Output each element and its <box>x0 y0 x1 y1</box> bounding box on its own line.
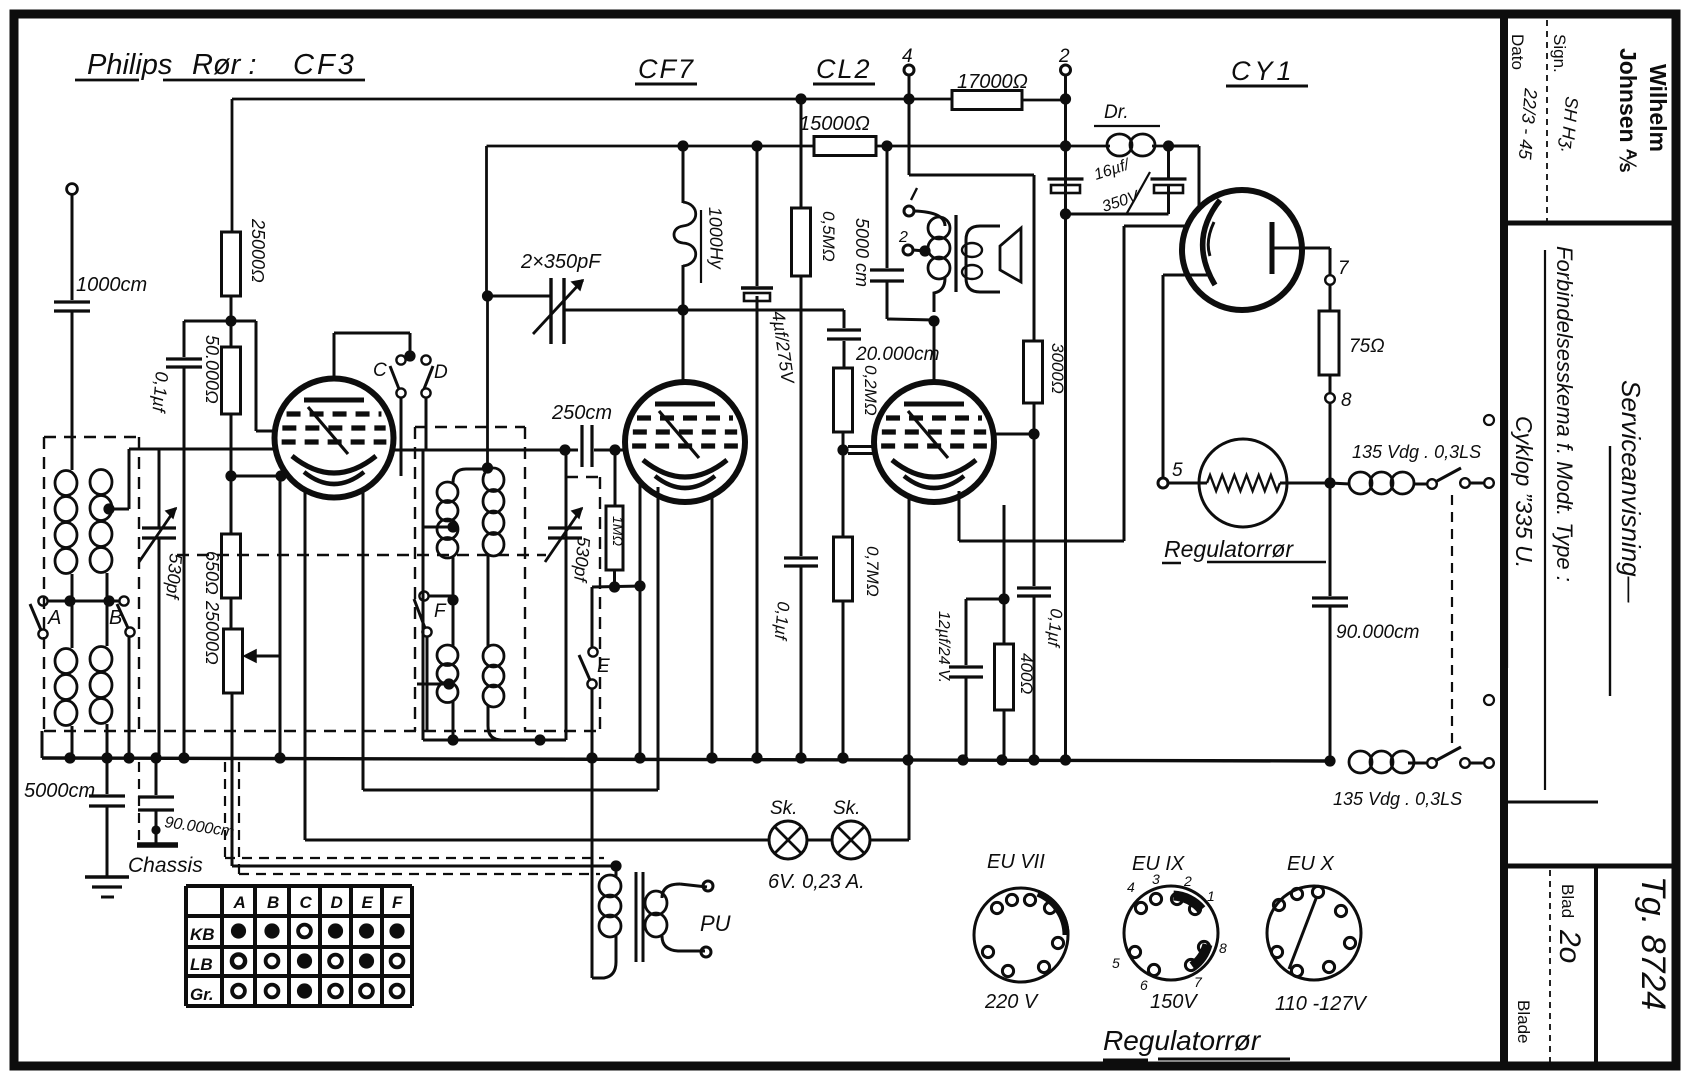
wire switch D down <box>425 398 428 450</box>
node speaker tap <box>919 245 930 256</box>
resistor 0,2 Mohm <box>834 368 853 432</box>
regulator tube <box>1199 439 1287 527</box>
node CL2 grid <box>837 444 848 455</box>
svg-text:530pf: 530pf <box>162 553 186 602</box>
svg-text:Serviceanvisning—: Serviceanvisning— <box>1616 380 1646 604</box>
wire CF7 return L <box>363 789 658 792</box>
svg-text:Dr.: Dr. <box>1104 102 1129 123</box>
svg-text:B: B <box>267 893 279 912</box>
node frame bottom left <box>447 734 458 745</box>
capacitor 5000cm anode <box>881 140 892 151</box>
node PU top <box>610 860 621 871</box>
binder hole bottom <box>1484 695 1494 705</box>
svg-text:F: F <box>434 601 447 622</box>
node bus junction <box>751 752 762 763</box>
wire terminal2 line down <box>1064 146 1067 758</box>
wire CF3 screen feed <box>231 320 256 323</box>
terminal 8 <box>1329 375 1332 393</box>
svg-text:Wilhelm: Wilhelm <box>1645 64 1671 152</box>
wire to 3000 ohm feed <box>909 174 1034 177</box>
svg-text:A: A <box>47 607 61 629</box>
svg-text:Sign.: Sign. <box>1550 34 1569 73</box>
node 1000Hy top <box>677 140 688 151</box>
node 4uF top <box>751 140 762 151</box>
capacitor 90.000cm right <box>1329 483 1332 596</box>
svg-text:2: 2 <box>1183 873 1192 889</box>
svg-text:4: 4 <box>902 46 913 67</box>
speaker coil <box>966 226 1000 292</box>
svg-text:A: A <box>233 893 246 912</box>
svg-text:KB: KB <box>190 925 215 944</box>
svg-text:Dato: Dato <box>1508 34 1527 70</box>
node L4 top <box>482 462 493 473</box>
node CL2 cathode bias <box>998 593 1009 604</box>
svg-text:Tg. 8724: Tg. 8724 <box>1634 876 1672 1010</box>
svg-text:0,1µf: 0,1µf <box>770 601 792 643</box>
node L3 tap1 <box>447 521 458 532</box>
node bus junction <box>634 752 645 763</box>
resistor 650 ohm <box>222 534 241 598</box>
node bus junction <box>150 752 161 763</box>
node bus junction <box>957 754 968 765</box>
wire 1000Hy node to CF7 anode <box>682 310 685 382</box>
shield partition dashed y=555 <box>177 554 546 556</box>
svg-text:12µf/24 V.: 12µf/24 V. <box>935 611 952 683</box>
svg-text:2o: 2o <box>1553 929 1586 963</box>
tube CF3 <box>275 379 394 498</box>
node Dr right <box>1163 140 1174 151</box>
wire lamp to heater riser <box>870 839 909 842</box>
chassis bar <box>137 842 178 848</box>
node bus junction <box>902 754 913 765</box>
node bus junction <box>178 752 189 763</box>
wire 16uF bottom rail <box>1066 213 1169 216</box>
oscillator frame right <box>565 451 568 740</box>
wire L2 tap <box>106 573 109 601</box>
socket EU IX <box>1124 886 1218 980</box>
shield dash to chassis <box>138 762 140 840</box>
tube CF7 <box>625 382 745 502</box>
node bus junction <box>1060 754 1071 765</box>
wire between lamps <box>807 839 832 842</box>
terminal 5 <box>1158 478 1168 488</box>
inductor mains choke bottom <box>1349 751 1372 773</box>
wire L3 tap1 stub <box>424 526 453 529</box>
node 25000-50000 junction <box>225 315 236 326</box>
wire Dr to CY1 <box>1169 145 1200 148</box>
svg-text:1MΩ: 1MΩ <box>610 516 626 546</box>
wire gang right plate to anode coil node <box>564 309 844 312</box>
wire junction to 0.1uF <box>184 320 231 323</box>
svg-text:0,7MΩ: 0,7MΩ <box>863 546 882 597</box>
svg-text:400Ω: 400Ω <box>1017 653 1036 694</box>
wire 50000 to cathode node <box>230 414 233 476</box>
svg-text:25000Ω: 25000Ω <box>202 600 222 665</box>
svg-text:1: 1 <box>1207 888 1215 904</box>
svg-text:2: 2 <box>898 229 908 246</box>
resistor 17000 ohm <box>952 91 1022 110</box>
speaker cone <box>1000 228 1021 282</box>
svg-text:5: 5 <box>1172 460 1183 481</box>
coil L4b lower <box>483 645 504 667</box>
coil L3a upper <box>437 482 458 503</box>
svg-text:0,1µf: 0,1µf <box>1043 608 1065 650</box>
wire varcap bottom to bus <box>158 538 161 758</box>
switch B <box>119 596 128 605</box>
node bus junction <box>795 752 806 763</box>
svg-text:EU VII: EU VII <box>987 851 1045 873</box>
wire L1 tap <box>71 574 74 601</box>
node tube cathode <box>275 470 286 481</box>
svg-text:5000 cm: 5000 cm <box>852 218 872 287</box>
node bus junction <box>996 754 1007 765</box>
svg-text:2×350pF: 2×350pF <box>520 251 602 273</box>
svg-text:Johnsen ⅍: Johnsen ⅍ <box>1615 48 1641 172</box>
coil L2b lower <box>90 647 112 672</box>
switch C <box>396 355 405 364</box>
svg-text:Regulatorrør: Regulatorrør <box>1164 536 1294 562</box>
capacitor 1000cm <box>54 300 90 303</box>
capacitor 0,1uF CF7 anode <box>784 556 818 559</box>
node bus junction <box>837 752 848 763</box>
tube CY1 <box>1182 190 1302 310</box>
wire F top to L3 <box>428 595 453 598</box>
transformer PU core <box>635 872 638 962</box>
wire shielded pickup lead <box>232 865 616 868</box>
node CL2 screen <box>1028 428 1039 439</box>
svg-text:20.000cm: 20.000cm <box>855 344 939 365</box>
connection table grid <box>184 886 188 1006</box>
wire osc return below bus <box>362 789 364 791</box>
svg-text:E: E <box>597 656 610 677</box>
switch link dashed <box>1451 495 1453 748</box>
node bus junction <box>586 752 597 763</box>
svg-text:Rør :: Rør : <box>192 49 256 81</box>
title block left border <box>1500 14 1508 1066</box>
node L2 grid tap <box>103 503 114 514</box>
resistor 15000 ohm <box>814 137 876 156</box>
CL2 grid coupling plates <box>848 445 874 448</box>
svg-text:2: 2 <box>1058 46 1070 67</box>
coil L4a upper <box>483 468 504 492</box>
capacitor 4uF/275V <box>756 146 759 286</box>
wire coil tops bend <box>453 469 487 483</box>
coil L1a upper <box>55 471 77 496</box>
title block top cell divider <box>1504 221 1676 226</box>
wire CY1 cathode to terminal 5 <box>1163 274 1211 277</box>
node bus junction <box>123 752 134 763</box>
wire grid tap to grid line <box>109 508 129 511</box>
svg-text:5000cm.: 5000cm. <box>24 780 101 802</box>
wire cathode node to tube <box>231 475 281 478</box>
node gang left <box>482 290 493 301</box>
wire 1000cm to coil L1 <box>71 311 74 470</box>
wire E to bus <box>591 688 594 758</box>
shield dashed right leg <box>566 476 600 478</box>
svg-text:Regulatorrør: Regulatorrør <box>1103 1025 1262 1056</box>
svg-text:6V. 0,23 A.: 6V. 0,23 A. <box>768 871 865 893</box>
resistor 25000 ohm plate feed <box>222 232 241 296</box>
node bus junction <box>274 752 285 763</box>
socket EU IX keyway arc <box>1174 896 1202 910</box>
node bus junction <box>101 752 112 763</box>
svg-text:Sk.: Sk. <box>833 798 860 819</box>
node 250cm left <box>559 444 570 455</box>
terminal 4 <box>904 65 914 75</box>
terminal 1 speaker <box>904 206 914 216</box>
wire gang left plate <box>488 295 552 298</box>
node wire-B junction <box>103 595 114 606</box>
coil L3b lower <box>437 645 458 666</box>
svg-text:6: 6 <box>1140 977 1148 993</box>
node wire-A junction <box>64 595 75 606</box>
wire to CL2 anode <box>933 321 936 382</box>
node CF7 grid leak <box>634 580 645 591</box>
socket EU X <box>1267 886 1361 980</box>
svg-text:Gr.: Gr. <box>190 985 214 1004</box>
capacitor 16uF right <box>1167 146 1170 178</box>
svg-text:135 Vdg . 0,3LS: 135 Vdg . 0,3LS <box>1333 789 1462 809</box>
resistor 50.000 ohm <box>222 347 241 414</box>
svg-text:D: D <box>331 893 343 912</box>
svg-text:135 Vdg . 0,3LS: 135 Vdg . 0,3LS <box>1352 442 1481 462</box>
wire L1 bottom to bus <box>71 726 74 758</box>
svg-text:Cyklop ”335 U.: Cyklop ”335 U. <box>1511 416 1537 568</box>
node gang-coil junction <box>677 304 688 315</box>
svg-text:4: 4 <box>1127 879 1135 895</box>
node bus junction <box>1028 754 1039 765</box>
svg-text:75Ω: 75Ω <box>1349 336 1385 357</box>
wire CF3 heater to pilot lamps <box>304 489 307 840</box>
output transformer core <box>954 215 957 292</box>
svg-text:7: 7 <box>1338 258 1350 279</box>
svg-text:C: C <box>300 893 313 912</box>
wire L4 column <box>487 555 490 646</box>
wire cathode down <box>279 476 282 758</box>
wire 1M bottom link <box>592 586 640 587</box>
resistor 0,7 Mohm <box>842 450 845 537</box>
wire varcap2 top <box>564 451 566 528</box>
wire band wire y=601 <box>47 600 120 603</box>
table dots <box>231 923 246 938</box>
svg-text:530pf: 530pf <box>570 536 594 585</box>
svg-text:E: E <box>362 893 374 912</box>
svg-text:LB: LB <box>190 955 213 974</box>
socket EU IX keyway arc 2 <box>1193 945 1208 967</box>
svg-text:Blade: Blade <box>1514 1000 1533 1043</box>
wire PU return <box>591 758 594 978</box>
resistor 75 ohm <box>1329 285 1332 311</box>
coil L1b lower <box>55 649 77 674</box>
wire CF3 anode to switch CD <box>333 333 336 379</box>
svg-text:Forbindelsesskema f. Modt. Typ: Forbindelsesskema f. Modt. Type : <box>1552 246 1577 582</box>
node F-L3 junction <box>447 594 458 605</box>
socket EU X keyway line <box>1289 896 1317 969</box>
wire oscillator feed x=486.5 down <box>485 146 488 296</box>
wire F bottom down <box>426 636 429 731</box>
wire antenna lead <box>71 194 74 300</box>
variable capacitor 530pF oscillator <box>548 526 582 529</box>
svg-text:250cm: 250cm <box>551 402 612 424</box>
terminal 2 <box>1061 65 1071 75</box>
svg-text:0,1µf: 0,1µf <box>148 371 172 415</box>
svg-text:50.000Ω: 50.000Ω <box>202 335 222 404</box>
svg-text:EU IX: EU IX <box>1132 853 1185 875</box>
node frame bottom right <box>534 734 545 745</box>
capacitor 0,1uF screen <box>1033 434 1036 586</box>
node anode junction <box>928 315 939 326</box>
svg-text:Chassis: Chassis <box>128 854 203 877</box>
svg-text:220 V: 220 V <box>984 991 1039 1013</box>
wire 0,1uF to bus <box>800 566 803 758</box>
svg-text:25000Ω: 25000Ω <box>248 218 268 283</box>
wire pot bottom through bus to PU shield wire <box>231 693 234 866</box>
node 16uF bottom <box>1060 208 1071 219</box>
svg-text:1000Hy: 1000Hy <box>705 206 727 270</box>
lamp Sk 1 <box>769 821 807 859</box>
socket EU VII keyway arc <box>1038 893 1066 935</box>
svg-text:5: 5 <box>1112 955 1120 971</box>
node L3 tap2 <box>443 678 454 689</box>
switch A <box>38 596 47 605</box>
svg-text:15000Ω: 15000Ω <box>799 113 870 135</box>
output transformer primary <box>914 211 945 226</box>
svg-text:17000Ω: 17000Ω <box>957 71 1028 93</box>
svg-text:C: C <box>373 360 387 381</box>
node bus right <box>1324 755 1335 766</box>
wire CY1 anode to terminal 7 <box>1274 247 1330 250</box>
wire CF3 lead to oscillator return <box>362 489 365 790</box>
binder hole top <box>1484 415 1494 425</box>
PU terminal bottom <box>701 947 711 957</box>
node bus junction <box>64 752 75 763</box>
node cathode junction <box>225 470 236 481</box>
switch mains bottom <box>1427 758 1437 768</box>
capacitor 90.000cm chassis <box>155 758 158 795</box>
wire CF7 screen lead <box>711 495 714 758</box>
wire terminal 4 drop <box>908 75 911 175</box>
resistor 3000 ohm <box>1024 341 1043 403</box>
wire CF3 plate-feed drop x=232 <box>231 99 234 232</box>
capacitor 5000cm chassis <box>106 758 109 794</box>
svg-text:110 -127V: 110 -127V <box>1275 993 1367 1015</box>
wire CL2 heater <box>908 497 911 840</box>
wire L2 bottom to bus <box>106 724 109 758</box>
wire L3 column <box>452 557 455 646</box>
transformer PU primary <box>615 866 618 876</box>
wire switch B to bus <box>128 636 131 758</box>
svg-text:0,5MΩ: 0,5MΩ <box>819 211 838 262</box>
oscillator frame left <box>422 450 425 740</box>
wire switch A to bus <box>42 638 44 731</box>
CY1 anode <box>1270 222 1275 274</box>
svg-text:90.000cm: 90.000cm <box>1336 622 1419 643</box>
wire 0,1uF to bus <box>183 367 186 758</box>
wire L4 bottom bend <box>488 706 540 740</box>
switch E <box>591 587 594 648</box>
coil L2a upper <box>90 470 112 495</box>
svg-text:8: 8 <box>1341 390 1352 411</box>
svg-text:CY1: CY1 <box>1231 56 1296 86</box>
svg-text:D: D <box>434 362 448 383</box>
inductor mains choke top <box>1349 472 1372 494</box>
label 16uF slash <box>1127 172 1150 213</box>
wire CF7 grid-leak lead <box>639 482 642 586</box>
node 1M bottom <box>609 581 620 592</box>
resistor 400 ohm <box>1003 599 1006 644</box>
shield box antenna coils (dashed) <box>44 436 139 438</box>
variable capacitor 530pF antenna <box>142 526 176 529</box>
svg-text:PU: PU <box>700 911 731 936</box>
socket EU VII <box>974 888 1068 982</box>
PU terminal top <box>703 881 713 891</box>
antenna terminal <box>67 184 78 195</box>
svg-text:F: F <box>392 893 403 912</box>
svg-text:8: 8 <box>1219 940 1227 956</box>
node switch CD feed <box>404 350 415 361</box>
wire top bus y=99 from CF3 feed to terminal-2 line <box>232 98 952 101</box>
switch D <box>421 355 430 364</box>
wire CL2 cathode <box>958 491 961 541</box>
capacitor 16uF left <box>1048 177 1084 180</box>
oscillator frame bottom <box>423 739 566 742</box>
ground symbol <box>85 875 129 879</box>
svg-text:Sk.: Sk. <box>770 798 797 819</box>
title block dashed divider sign/dato <box>1546 20 1548 221</box>
svg-text:CL2: CL2 <box>816 54 872 84</box>
terminal 2 speaker <box>903 245 913 255</box>
svg-text:650Ω: 650Ω <box>202 551 222 595</box>
capacitor 0,1uF AVC <box>166 357 202 360</box>
lamp Sk 2 <box>832 821 870 859</box>
shield box bottom dashed rail y=731 <box>44 730 604 732</box>
svg-text:B: B <box>109 607 122 629</box>
title block bottom cells <box>1505 801 1598 804</box>
resistor 1 Mohm <box>614 450 617 506</box>
svg-text:CF7: CF7 <box>638 54 695 84</box>
capacitor 20.000cm <box>843 310 846 328</box>
svg-text:Blad: Blad <box>1558 884 1577 918</box>
node bus junction <box>706 752 717 763</box>
svg-text:Philips: Philips <box>87 49 172 81</box>
wire second bus y=146 <box>487 145 815 148</box>
svg-text:7: 7 <box>1194 974 1203 990</box>
terminal 7 <box>1325 275 1335 285</box>
potentiometer 25000 ohm <box>224 629 243 693</box>
switch F <box>419 591 428 600</box>
shield dashes around pickup lead <box>224 762 226 858</box>
svg-text:CF3: CF3 <box>293 49 357 81</box>
svg-text:1000cm: 1000cm <box>76 274 147 296</box>
svg-text:0,2MΩ: 0,2MΩ <box>861 365 880 416</box>
wire terminal 2 drop <box>1064 75 1067 146</box>
CY1 cathode <box>1203 200 1220 285</box>
inductor 1000 Hy <box>682 146 685 203</box>
potentiometer wiper arrow <box>247 655 280 658</box>
wire L3 tap2 stub <box>417 683 449 686</box>
node 5-8 junction <box>1324 477 1335 488</box>
wire 0,5M to 0,1uF <box>800 276 803 556</box>
transformer PU secondary <box>662 884 680 898</box>
capacitor 250cm <box>580 425 583 467</box>
switch mains top <box>1427 479 1437 489</box>
node 250cm right / 1M top <box>609 444 620 455</box>
wire heater L to lamps <box>305 839 769 842</box>
tube CL2 <box>874 382 994 502</box>
wire CF7 cathode down <box>657 487 660 790</box>
shield box oscillator (dashed) <box>415 426 525 428</box>
svg-text:EU X: EU X <box>1287 853 1334 875</box>
